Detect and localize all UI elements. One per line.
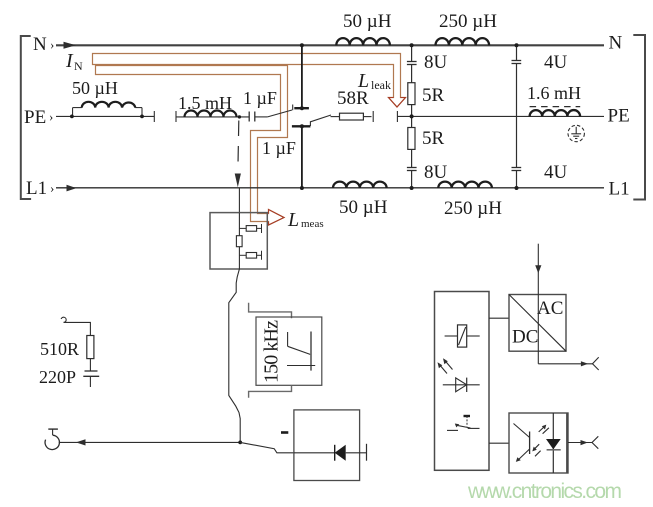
contact bar2 bbox=[292, 125, 311, 127]
inductor 50uH on L1 rail bbox=[333, 182, 387, 188]
svg-text:PE: PE bbox=[608, 106, 630, 127]
right bracket bbox=[633, 35, 645, 200]
wire through box bbox=[238, 213, 240, 269]
svg-text:4U: 4U bbox=[544, 162, 568, 183]
terminal tick bbox=[175, 111, 177, 122]
oscillator box 150kHz bbox=[256, 317, 322, 385]
supply wire with down arrow bbox=[537, 244, 539, 364]
svg-text:5R: 5R bbox=[422, 85, 445, 106]
wire bbox=[363, 116, 371, 118]
svg-text:50 µH: 50 µH bbox=[343, 11, 392, 32]
current path L_meas (hollow orange) bbox=[96, 66, 288, 226]
svg-text:1 µF: 1 µF bbox=[243, 88, 277, 108]
inductor 50uH on PE rail bbox=[73, 102, 142, 117]
arrowhead down bbox=[235, 174, 241, 188]
capacitor 8U bottom bbox=[407, 167, 417, 169]
terminal hook bbox=[61, 317, 66, 322]
LED vertical bbox=[552, 413, 554, 473]
svg-text:DC: DC bbox=[512, 327, 538, 348]
svg-text:510R: 510R bbox=[40, 339, 79, 359]
AC/DC converter box bbox=[509, 295, 566, 352]
minus sign bbox=[281, 431, 288, 434]
capacitor 4U top bbox=[512, 60, 522, 62]
wire L1 to measuring box bbox=[238, 188, 240, 213]
terminal tick bbox=[153, 111, 155, 122]
wire PE right segment bbox=[397, 115, 604, 117]
wire control to ACDC bbox=[489, 317, 509, 319]
svg-text:L1: L1 bbox=[26, 178, 47, 199]
svg-text:220P: 220P bbox=[39, 367, 76, 387]
wire L1 rail bbox=[56, 187, 604, 189]
capacitor 220P bbox=[85, 370, 98, 372]
capacitor 1uF plates bbox=[248, 112, 250, 122]
wire box down to oscillator bbox=[229, 269, 240, 442]
wire to diode box bbox=[240, 442, 294, 452]
inductor 250uH on N rail bbox=[436, 38, 490, 45]
svg-text:›: › bbox=[50, 37, 54, 52]
switch blade S1 bbox=[268, 110, 292, 117]
svg-text:5R: 5R bbox=[422, 128, 445, 149]
wire output bbox=[59, 441, 240, 443]
control unit tall box bbox=[435, 292, 490, 471]
svg-text:meas: meas bbox=[301, 218, 324, 230]
inductor 1.5mH bbox=[185, 111, 237, 117]
connector staple bottom bbox=[249, 385, 292, 397]
earth symbol bbox=[568, 125, 584, 141]
svg-text:I: I bbox=[65, 50, 74, 72]
connector staple top bbox=[249, 303, 292, 319]
resistor 5R bottom bbox=[408, 128, 415, 150]
arrow on N rail bbox=[64, 42, 77, 49]
svg-text:8U: 8U bbox=[424, 162, 448, 183]
relay symbol bbox=[445, 335, 458, 337]
contact bar1 bbox=[294, 107, 309, 109]
wire bbox=[331, 116, 340, 118]
svg-text:1.6 mH: 1.6 mH bbox=[527, 83, 581, 103]
junction dot bbox=[238, 115, 241, 118]
svg-text:AC: AC bbox=[537, 298, 563, 319]
svg-text:leak: leak bbox=[371, 78, 391, 92]
vertical branch x412 N to L1 bbox=[411, 45, 413, 61]
svg-text:250 µH: 250 µH bbox=[444, 198, 502, 219]
arrow left on output wire bbox=[76, 439, 86, 445]
left bracket bbox=[21, 36, 31, 199]
svg-text:N: N bbox=[33, 34, 47, 55]
terminal tick bbox=[396, 111, 398, 122]
wire PE left segment bbox=[56, 115, 154, 117]
vertical branch x516 N to L1 bbox=[516, 45, 518, 60]
terminal tick bbox=[372, 111, 374, 122]
inductor 1.6mH bbox=[530, 110, 580, 116]
terminal tick bbox=[366, 444, 368, 461]
junction dots PE inductor bbox=[70, 115, 74, 119]
wire opto output with arrow and fork bbox=[568, 442, 592, 444]
dashed line above 1.6mH bbox=[530, 106, 581, 108]
resistor small vertical bbox=[236, 236, 242, 247]
dash-dot wire with arrow to L1 bbox=[237, 121, 240, 171]
wire bar2 to L1 bbox=[301, 126, 303, 188]
capacitor 8U top bbox=[407, 61, 417, 63]
resistor 5R top bbox=[408, 83, 415, 105]
switch blade S2 bbox=[310, 115, 331, 122]
svg-text:50 µH: 50 µH bbox=[72, 78, 118, 98]
contact tick S2 bbox=[309, 121, 311, 126]
svg-text:›: › bbox=[50, 181, 54, 196]
light arrows bbox=[438, 358, 453, 373]
wire N to bar1 bbox=[301, 45, 303, 108]
ramp symbol bbox=[287, 332, 289, 346]
inductor 50uH on N rail bbox=[336, 38, 390, 45]
arrowhead of L_leak bbox=[389, 98, 406, 108]
arrow on L1 rail bbox=[67, 185, 77, 192]
svg-text:www.cntronics.com: www.cntronics.com bbox=[467, 480, 622, 503]
resistor small horizontal top bbox=[239, 227, 246, 229]
measuring box bbox=[210, 213, 267, 269]
optocoupler box bbox=[509, 413, 568, 473]
wire N rail bbox=[56, 44, 604, 46]
diode symbol bbox=[443, 384, 480, 386]
svg-text:›: › bbox=[49, 109, 53, 124]
wire bbox=[255, 116, 268, 118]
light arrows opto bbox=[539, 426, 545, 432]
wire bbox=[64, 322, 91, 335]
svg-text:L: L bbox=[357, 70, 369, 92]
capacitor 4U bottom bbox=[512, 167, 522, 169]
contact tick S1 bbox=[292, 105, 294, 111]
output connector symbol bbox=[48, 428, 58, 430]
svg-text:8U: 8U bbox=[424, 52, 448, 73]
wire ACDC output with arrow and fork bbox=[538, 363, 592, 365]
phototransistor bbox=[514, 424, 530, 438]
diode D1 bbox=[334, 445, 336, 461]
svg-text:L1: L1 bbox=[609, 179, 630, 200]
svg-text:L: L bbox=[287, 209, 299, 231]
svg-text:PE: PE bbox=[24, 107, 46, 128]
switch symbol bbox=[447, 429, 458, 431]
svg-text:1 µF: 1 µF bbox=[262, 138, 296, 158]
diode box bbox=[294, 410, 360, 481]
resistor 58R bbox=[340, 113, 364, 120]
resistor small horizontal bottom bbox=[239, 254, 246, 256]
svg-text:N: N bbox=[74, 59, 83, 73]
svg-text:N: N bbox=[609, 33, 623, 54]
svg-text:4U: 4U bbox=[544, 52, 568, 73]
wire bbox=[176, 116, 249, 118]
svg-text:250 µH: 250 µH bbox=[439, 11, 497, 32]
wire control to opto bbox=[489, 442, 509, 444]
wire through diode box bbox=[294, 452, 335, 454]
inductor 250uH on L1 rail bbox=[438, 182, 492, 188]
current path L_leak (hollow orange) bbox=[93, 54, 406, 108]
arrowhead of L_meas bbox=[269, 210, 285, 226]
resistor 510R bbox=[87, 336, 94, 359]
svg-text:150 kHz: 150 kHz bbox=[261, 320, 283, 383]
svg-text:50 µH: 50 µH bbox=[339, 197, 388, 218]
